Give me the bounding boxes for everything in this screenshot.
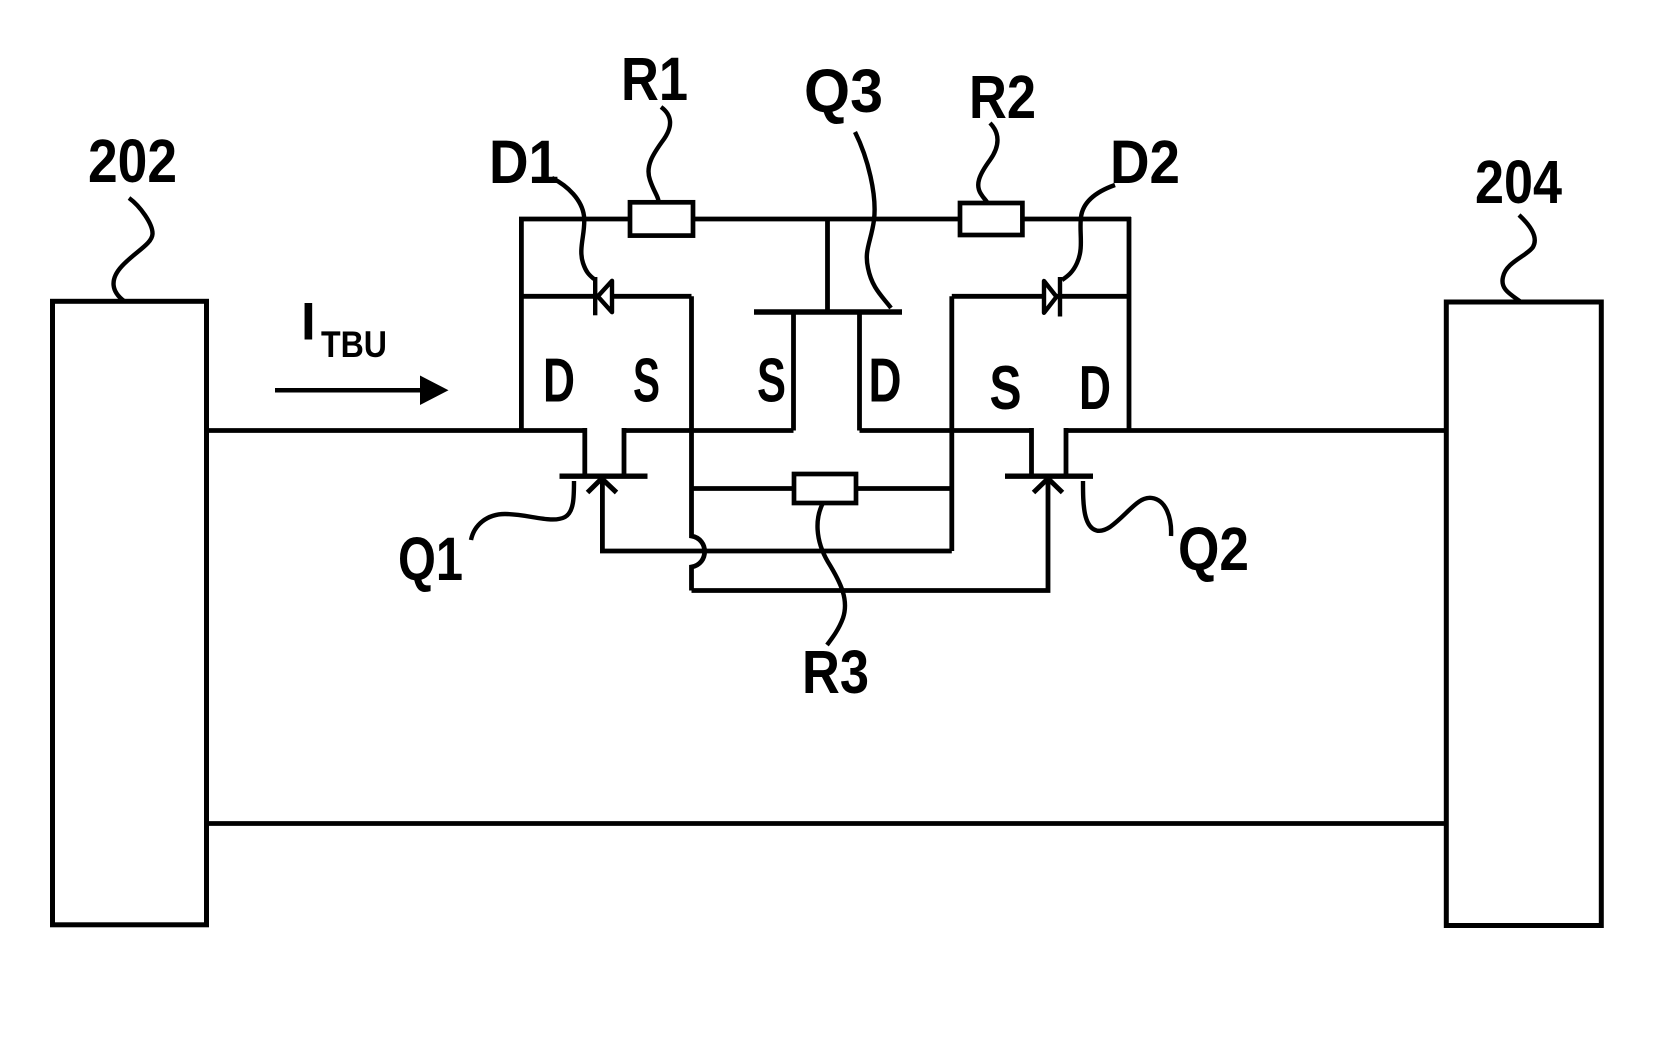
transistor Q1 channel bar	[560, 474, 648, 479]
svg-text:D1: D1	[489, 128, 559, 196]
wire: Q3 drain stub	[857, 312, 862, 431]
transistor Q2 channel bar	[1005, 474, 1093, 479]
resistor R2	[960, 203, 1022, 235]
svg-text:D: D	[543, 347, 575, 416]
leader line D2	[1062, 185, 1115, 280]
wire: node A to Q2 gate	[692, 478, 1049, 591]
diode D2 cathode bar	[1058, 277, 1062, 317]
current arrow I_TBU head	[420, 376, 449, 406]
leader line R2	[978, 123, 997, 204]
wire: top bus	[519, 217, 1131, 222]
wire: R3 left lead	[692, 486, 795, 491]
wire: R3 right lead	[856, 486, 952, 491]
svg-text:S: S	[757, 347, 786, 416]
wire: right bus vertical (bus to main line)	[1127, 217, 1132, 431]
wire: Q3 gate stub	[825, 219, 830, 310]
svg-text:TBU: TBU	[321, 324, 387, 365]
leader line R1	[648, 107, 670, 201]
current arrow I_TBU shaft	[275, 388, 420, 393]
wire: Q3 source stub	[791, 312, 796, 431]
wire: Q1 gate to node B	[602, 478, 951, 551]
wire: node A vertical with hop over Q1 gate wire	[692, 296, 705, 590]
svg-text:S: S	[633, 347, 660, 416]
leader line Q2	[1083, 481, 1171, 536]
wire: Q1 source drop	[622, 428, 627, 476]
svg-text:R3: R3	[802, 638, 869, 706]
leader line 204	[1502, 215, 1534, 302]
svg-text:R1: R1	[621, 45, 688, 113]
wire: main line Q3 drain to Q2 source	[860, 428, 1032, 433]
terminal 204	[1446, 302, 1601, 926]
transistor Q3 channel bar	[754, 309, 902, 314]
transistor Q1 gate arrow	[588, 479, 617, 493]
wire: bottom return line	[207, 821, 1447, 826]
wire: D2 branch	[952, 294, 1129, 299]
resistor R3	[794, 474, 856, 503]
leader line Q1	[471, 481, 574, 540]
leader line 202	[114, 198, 153, 301]
svg-text:Q3: Q3	[804, 57, 883, 125]
wire: Q2 drain drop	[1064, 428, 1069, 476]
svg-text:D: D	[1079, 354, 1111, 423]
diode D1 triangle	[598, 281, 612, 312]
transistor Q2 gate arrow	[1034, 479, 1063, 493]
svg-text:D2: D2	[1110, 128, 1180, 196]
resistor R1	[630, 202, 693, 235]
wire: Q1 drain drop	[582, 428, 587, 476]
leader line D1	[552, 178, 594, 279]
wire: node B vertical (D2 branch to Q1 gate)	[949, 296, 954, 551]
svg-text:Q2: Q2	[1178, 515, 1249, 583]
svg-text:I: I	[301, 293, 316, 352]
svg-text:204: 204	[1475, 148, 1562, 216]
terminal 202	[53, 301, 207, 925]
svg-text:D: D	[869, 347, 902, 416]
svg-text:S: S	[990, 354, 1022, 423]
diode D2 triangle	[1044, 281, 1057, 313]
diode D1 cathode bar	[593, 277, 597, 315]
leader line Q3	[855, 132, 891, 308]
svg-text:R2: R2	[969, 63, 1036, 131]
svg-text:202: 202	[88, 127, 177, 195]
wire: Q2 source drop	[1029, 428, 1034, 476]
leader line R3	[818, 503, 846, 645]
wire: left bus vertical (bus to main line)	[519, 217, 524, 431]
wire: main line 202 to Q1 drain	[207, 428, 585, 433]
wire: main line Q1 source to Q3 source	[624, 428, 794, 433]
svg-text:Q1: Q1	[398, 525, 463, 593]
wire: main line Q2 drain to 204	[1066, 428, 1446, 433]
wire: D1 branch	[521, 294, 691, 299]
